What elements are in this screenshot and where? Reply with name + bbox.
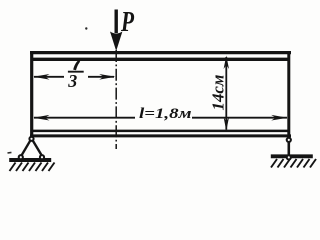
svg-text:l=1,8м: l=1,8м — [139, 106, 192, 122]
beam left edge — [30, 51, 33, 137]
beam right edge — [287, 51, 290, 138]
load center line (dash-dot) — [115, 50, 117, 149]
force P arrow shaft — [114, 10, 117, 34]
beam top inner line — [33, 58, 288, 61]
svg-text:3: 3 — [67, 71, 77, 91]
dimension l/3 line left segment — [34, 76, 64, 78]
fraction bar — [68, 71, 84, 73]
left support: triangle right leg — [33, 140, 43, 156]
right support: bottom hinge circle — [287, 155, 291, 159]
dimension l/3 line right segment — [88, 76, 114, 78]
right support ground hatching — [271, 159, 316, 168]
right support: top hinge circle — [287, 138, 291, 142]
left support: left roller circle — [19, 155, 23, 159]
dimension l/3 left arrowhead — [33, 74, 49, 80]
force P arrowhead — [110, 32, 122, 52]
right support: ground bar — [271, 154, 313, 158]
dimension label l/3 fraction: numerator l — [73, 61, 80, 71]
left support: triangle left leg — [21, 140, 31, 156]
dimension l=1,8m right arrowhead — [271, 115, 287, 121]
dimension 14cm bottom arrowhead — [224, 117, 229, 131]
beam top outer edge — [30, 51, 291, 54]
svg-text:P: P — [120, 6, 134, 38]
scan speck near left support — [7, 152, 11, 154]
dimension l/3 right arrowhead — [99, 74, 115, 80]
svg-text:14см: 14см — [209, 74, 228, 110]
scan speck near top — [85, 27, 87, 29]
left support: right roller circle — [40, 155, 44, 159]
left support: apex hinge circle — [29, 137, 33, 141]
dimension l=1,8m line left segment — [34, 117, 135, 119]
dimension 14cm vertical line — [225, 57, 227, 130]
dimension 14cm top arrowhead — [224, 56, 229, 70]
right support: link rod — [287, 137, 290, 157]
left support: ground bar — [9, 158, 51, 162]
dimension l=1,8m left arrowhead — [33, 115, 49, 121]
dimension l=1,8m line right segment — [192, 117, 287, 119]
beam bottom inner line — [33, 130, 288, 133]
beam bottom outer edge — [30, 134, 291, 137]
left support ground hatching — [10, 163, 55, 172]
